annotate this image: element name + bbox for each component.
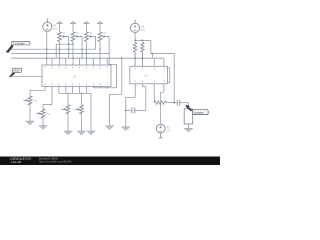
ground G8 — [184, 128, 193, 132]
svg-text:1 V: 1 V — [166, 129, 170, 133]
svg-text:5 V: 5 V — [53, 27, 57, 31]
potentiometer R1 — [58, 32, 69, 42]
wire long row L1 — [11, 53, 116, 87]
svg-text:∿‖▪LAB: ∿‖▪LAB — [10, 160, 21, 164]
wire P4 to ground — [81, 114, 83, 131]
wire lower rail — [59, 92, 91, 94]
wire P1 to ground — [29, 105, 31, 121]
svg-text:1k: 1k — [90, 33, 93, 35]
ground G4 — [77, 131, 86, 135]
resistor R6 — [141, 42, 144, 66]
VCC arrow 3 — [83, 21, 89, 32]
svg-text:1k: 1k — [103, 33, 106, 35]
VCC arrow 1 — [57, 21, 63, 32]
U1 right side loop wire — [168, 68, 170, 83]
wire rail end to ground — [90, 93, 92, 131]
wire speaker to ground — [187, 124, 189, 128]
wire U2 pin1 to pot P1 — [30, 90, 45, 96]
U2 extra top pin stubs — [52, 58, 107, 65]
wire pot1 wiper drop — [68, 37, 70, 59]
svg-text:U1: U1 — [145, 74, 149, 78]
wire rail under V1 — [135, 39, 151, 41]
potentiometer P3 — [61, 105, 70, 114]
potentiometer P1 — [23, 96, 32, 105]
flag Speaker — [185, 105, 208, 115]
svg-text:MUX: MUX — [14, 69, 20, 73]
wire long row L0 — [11, 48, 96, 50]
wire V1 down to rail — [134, 33, 136, 43]
wire pot3 bottom drop — [86, 41, 88, 65]
svg-text:1k: 1k — [63, 33, 66, 35]
wire C1 up to U1 pin2 — [142, 84, 146, 111]
ground G3 — [64, 131, 73, 135]
U1 bottom pin stubs — [135, 84, 164, 103]
wire seg a — [56, 43, 73, 45]
wire long row L2 — [11, 57, 164, 59]
wire outer drop to R7 node — [151, 40, 174, 102]
speaker SP1 — [184, 109, 193, 124]
wire pot3 wiper drop — [95, 37, 97, 50]
VCC arrow 2 — [70, 21, 76, 32]
wire pot4 wiper drop — [108, 37, 110, 54]
ground G7 — [122, 127, 131, 131]
svg-text:U2: U2 — [73, 75, 77, 79]
wire pot2 bottom drop — [72, 41, 74, 65]
voltage source V1 — [131, 20, 140, 33]
U2 bottom pin stubs — [45, 87, 107, 105]
svg-text:Pot: Pot — [33, 99, 37, 102]
wire pin4 jog to V3 — [161, 92, 164, 124]
ground G1 — [26, 121, 35, 125]
resistor R5 — [133, 42, 136, 66]
svg-text:Tx Enable: Tx Enable — [13, 41, 25, 45]
U1 top pin stubs — [154, 58, 164, 66]
ground G2 — [39, 126, 48, 130]
wire drop to row — [151, 54, 153, 59]
voltage source V3 — [156, 124, 165, 138]
wire MUX to U2 — [10, 76, 43, 78]
potentiometer P2 — [36, 109, 45, 118]
wire V2 down — [46, 31, 48, 65]
potentiometer R3 — [85, 32, 96, 42]
wire pot1 bottom drop — [59, 41, 61, 65]
wire U1 pin1 corner to cap node — [126, 97, 135, 127]
wire rail to pot P3 — [67, 93, 69, 105]
ground G6 — [105, 126, 114, 130]
svg-text:Pot: Pot — [46, 112, 50, 115]
capacitor C3 — [177, 100, 188, 106]
wire drop to mid ground — [110, 58, 122, 126]
flag Tx Enable — [6, 41, 30, 52]
wire rail to pot P4 — [81, 93, 83, 105]
potentiometer R4 — [98, 32, 109, 42]
svg-text:Speaker: Speaker — [194, 110, 204, 114]
wire P3 to ground — [67, 114, 69, 131]
svg-text:5 V: 5 V — [141, 28, 145, 32]
wire pin3 down / resistor R7 — [154, 101, 177, 104]
ground G5 — [87, 131, 96, 135]
wire seg a drop — [55, 44, 57, 58]
capacitor C1 — [126, 107, 146, 113]
wire into speaker — [187, 103, 189, 109]
voltage source V2 — [43, 19, 52, 32]
svg-text:1k: 1k — [76, 33, 79, 35]
svg-text:http://circuitlab.com/4Q2f5: http://circuitlab.com/4Q2f5 — [39, 159, 72, 163]
wire P2 to ground — [42, 118, 44, 126]
IC U2 box — [42, 65, 111, 87]
IC U1 box — [130, 66, 168, 84]
wire U2 pin2 to pot P2 — [43, 105, 52, 109]
wire pot2 wiper drop — [81, 37, 83, 59]
flag MUX — [9, 68, 22, 77]
VCC arrow 4 — [97, 21, 103, 32]
potentiometer P4 — [75, 105, 84, 114]
U1 pin number marks — [135, 68, 165, 82]
U2 pin number marks — [45, 67, 108, 85]
potentiometer R2 — [71, 32, 82, 42]
wire pot4 bottom drop — [99, 41, 101, 65]
